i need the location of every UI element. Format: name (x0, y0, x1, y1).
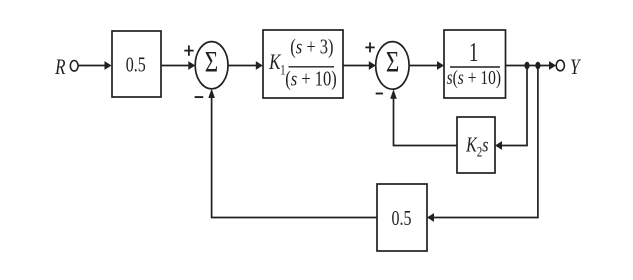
wire block 0.5 to summer S1 (161, 65, 189, 67)
svg-text:Σ: Σ (386, 45, 399, 78)
plus sign at S1 (184, 50, 193, 52)
summing junction S1 (195, 42, 228, 89)
svg-text:Σ: Σ (205, 45, 218, 78)
plus sign at S2 (365, 46, 374, 48)
wire 0.5 feedback to S1 bottom (212, 97, 377, 218)
wire dot2 down to block 0.5 feedback (433, 66, 538, 218)
node pickoff dot 2 (535, 62, 540, 69)
minus sign at S2 (376, 93, 383, 95)
block K2s (rate feedback) (457, 117, 495, 173)
svg-text:0.5: 0.5 (126, 54, 146, 78)
wire R to block 0.5 (78, 65, 105, 67)
block K1 (s+3)/(s+10) (263, 30, 343, 98)
svg-text:(s + 10): (s + 10) (285, 67, 336, 91)
svg-text:s(s + 10): s(s + 10) (447, 66, 501, 90)
node pickoff dot 1 (524, 62, 529, 69)
svg-text:1: 1 (469, 38, 478, 68)
svg-text:(s + 3): (s + 3) (290, 36, 333, 60)
wire K1 to summer S2 (343, 65, 370, 67)
block 1/s(s+10) (plant) (444, 30, 506, 98)
block 0.5 (outer feedback) (377, 184, 427, 251)
wire S2 to block 1/s(s+10) (409, 65, 438, 67)
wire plant output to Y (506, 65, 551, 67)
block 0.5 (input gain) (112, 31, 161, 97)
node Y (output terminal) (556, 60, 564, 71)
node R (input terminal) (70, 61, 78, 72)
wire K2s to S2 bottom (394, 98, 458, 146)
minus sign at S1 (195, 96, 204, 98)
summing junction S2 (376, 42, 409, 90)
wire S1 to block K1 (228, 65, 257, 67)
svg-text:R: R (54, 55, 65, 80)
wire dot1 down to K2s block (501, 66, 527, 146)
svg-text:0.5: 0.5 (392, 207, 412, 231)
